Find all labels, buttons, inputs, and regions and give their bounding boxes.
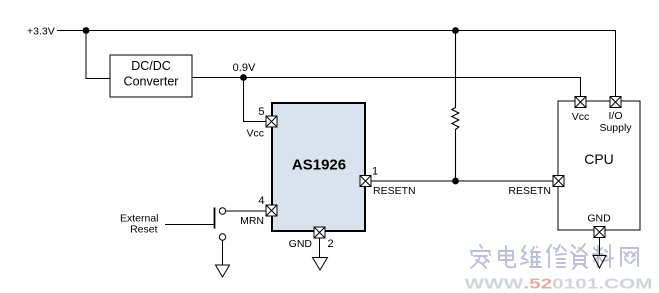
- wire GND pin2 to ground: [319, 238, 321, 258]
- svg-text:+3.3V: +3.3V: [27, 26, 55, 38]
- svg-text:0.9V: 0.9V: [233, 62, 256, 74]
- pin GND of CPU: [587, 213, 611, 238]
- wire External Reset to switch: [165, 224, 214, 226]
- svg-text:Converter: Converter: [124, 75, 179, 89]
- 料: [593, 245, 613, 267]
- svg-text:1: 1: [372, 166, 378, 178]
- switch SW1 external reset: [215, 208, 226, 241]
- wire switch to MRN pin: [226, 210, 266, 212]
- node junction 0.9V: [240, 74, 247, 81]
- pin 5 Vcc of AS1926: [246, 106, 277, 140]
- DC/DC converter box: [110, 55, 192, 97]
- svg-text:DC/DC: DC/DC: [131, 59, 171, 73]
- resistor R1: [452, 31, 459, 182]
- svg-text:I/O: I/O: [608, 110, 622, 122]
- wire CPU GND to ground: [599, 238, 601, 256]
- ground below switch: [216, 265, 230, 277]
- node junction +3.3V / DC-DC: [83, 27, 90, 34]
- wire to DC/DC input: [86, 31, 110, 79]
- 网: [621, 248, 638, 266]
- pin Vcc of CPU: [572, 97, 590, 124]
- node junction RESETN / resistor: [452, 178, 459, 185]
- svg-text:WWW.520101.COM: WWW.520101.COM: [465, 275, 653, 292]
- svg-text:Supply: Supply: [599, 122, 632, 134]
- svg-text:MRN: MRN: [240, 215, 264, 227]
- 电: [499, 246, 515, 267]
- wire 0.9V to Vcc pin5: [244, 78, 267, 122]
- svg-text:Vcc: Vcc: [572, 111, 590, 123]
- svg-text:RESETN: RESETN: [508, 185, 551, 197]
- svg-text:CPU: CPU: [584, 151, 614, 167]
- wire +3.3V rail: [57, 31, 616, 97]
- svg-text:Reset: Reset: [130, 224, 158, 236]
- svg-text:GND: GND: [587, 213, 611, 225]
- CPU box: [558, 101, 640, 230]
- ground below AS1926: [313, 258, 328, 271]
- watermark url www.520101.com: [465, 275, 653, 292]
- svg-text:RESETN: RESETN: [373, 185, 416, 197]
- watermark text 家电维修资料网: [471, 244, 638, 269]
- pin RESETN of CPU: [508, 176, 564, 198]
- pin 2 GND of AS1926: [289, 227, 334, 250]
- svg-text:4: 4: [258, 195, 264, 207]
- node junction +3.3V / resistor: [452, 27, 459, 34]
- IC U1 AS1926 reset supervisor box: [272, 103, 365, 231]
- pin 4 MRN of AS1926: [240, 195, 277, 227]
- 资: [571, 244, 587, 269]
- svg-text:2: 2: [328, 238, 334, 250]
- 修: [547, 245, 566, 267]
- pin I/O Supply of CPU: [599, 97, 632, 135]
- svg-text:Vcc: Vcc: [246, 128, 264, 140]
- wire switch to ground: [222, 241, 224, 266]
- ground below CPU: [593, 256, 606, 269]
- svg-text:GND: GND: [289, 238, 313, 250]
- svg-text:AS1926: AS1926: [292, 157, 346, 174]
- 维: [521, 246, 541, 267]
- pin 1 RESETN of AS1926: [360, 166, 416, 198]
- wire RESETN net: [371, 180, 553, 182]
- 家: [471, 245, 490, 268]
- wire 0.9V rail: [192, 78, 581, 97]
- svg-text:5: 5: [258, 106, 264, 118]
